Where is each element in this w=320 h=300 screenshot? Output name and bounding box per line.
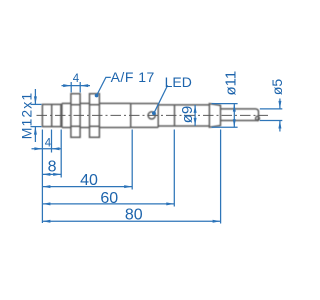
o5 arrows (outside) bbox=[278, 101, 281, 109]
thread top edge segments bbox=[62, 102, 71, 104]
svg-text:40: 40 bbox=[80, 172, 98, 189]
arrows top 4 (outside, horizontal) bbox=[63, 84, 71, 87]
barrel section C2 (o9) bbox=[158, 104, 209, 106]
40 arrows bbox=[42, 185, 50, 188]
bottom 4 arrows (outside) bbox=[34, 147, 42, 150]
connector coupling (o11 taper) bbox=[209, 104, 220, 128]
LED leader bbox=[154, 85, 168, 113]
svg-text:60: 60 bbox=[100, 190, 118, 207]
M12x1 ext lines bbox=[31, 103, 42, 105]
ext at 61 for 8 bbox=[60, 130, 62, 178]
bottom 4 dim line bbox=[32, 148, 62, 150]
top 4 ext lines bbox=[70, 82, 72, 93]
step vertical at 158.2 bbox=[157, 104, 159, 128]
thread end vertical bbox=[130, 103, 132, 127]
nut 2 facet lines bbox=[90, 104, 100, 106]
svg-text:4: 4 bbox=[73, 73, 80, 85]
svg-text:ø9: ø9 bbox=[179, 106, 196, 124]
svg-text:80: 80 bbox=[125, 207, 143, 224]
svg-text:LED: LED bbox=[165, 74, 192, 90]
o11 dim line bbox=[233, 104, 235, 128]
ext at 51.5 for bottom 4 bbox=[51, 130, 53, 153]
80 dim line bbox=[42, 220, 220, 222]
svg-text:ø11: ø11 bbox=[222, 71, 239, 96]
barrel divider at 174.5 bbox=[174, 105, 176, 126]
LED leader dot bbox=[152, 111, 156, 115]
arrows M12x1 (outside, vertical) bbox=[34, 96, 37, 104]
nut 1 facet lines bbox=[71, 104, 80, 106]
svg-text:M12x1: M12x1 bbox=[18, 92, 34, 140]
o5 stub bbox=[221, 109, 259, 121]
left face ext line (long) bbox=[41, 130, 43, 224]
LED hole circle bbox=[148, 112, 155, 119]
o9 dim line bbox=[194, 105, 196, 126]
svg-text:A/F 17: A/F 17 bbox=[111, 69, 155, 85]
svg-text:ø5: ø5 bbox=[269, 79, 285, 96]
8 dim line bbox=[42, 173, 61, 175]
8 arrows (inside) bbox=[42, 173, 50, 176]
o11 arrows (inside) bbox=[233, 104, 236, 112]
M12x1 dim line (outside arrows) bbox=[34, 89, 36, 104]
svg-text:4: 4 bbox=[45, 137, 52, 149]
centerline bbox=[37, 114, 269, 116]
80 arrows bbox=[42, 220, 50, 223]
svg-text:8: 8 bbox=[48, 158, 57, 175]
lock nut 2 bbox=[90, 94, 100, 138]
60 dim line bbox=[42, 203, 174, 205]
40 dim line bbox=[42, 186, 132, 188]
60 arrows bbox=[42, 202, 50, 205]
top 4 dim line bbox=[62, 85, 91, 87]
thread start double vertical bbox=[61, 103, 63, 127]
o5 dim line (outside arrows) bbox=[279, 99, 281, 109]
lock nut 1 bbox=[71, 94, 80, 138]
ext at 132 for 40 bbox=[131, 130, 133, 190]
A/F 17 leader bbox=[97, 77, 111, 95]
head divider line bbox=[51, 104, 53, 126]
o5 ext lines bbox=[260, 108, 283, 110]
o9 arrows (inside) bbox=[194, 105, 197, 113]
ext at 220.6 for 80 bbox=[220, 130, 222, 224]
stub tip circle bbox=[256, 116, 260, 120]
thread bottom edge segments bbox=[62, 127, 71, 129]
o11 ext lines bbox=[212, 103, 238, 105]
barrel section C1 bbox=[131, 103, 159, 105]
A/F17 leader dot bbox=[95, 94, 99, 98]
ext at 174.3 for 60 bbox=[173, 130, 175, 207]
sensing head bbox=[42, 104, 61, 126]
